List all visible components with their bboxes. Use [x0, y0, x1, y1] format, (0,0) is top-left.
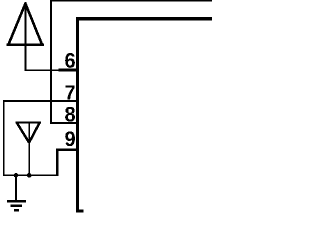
ground bar 2	[10, 205, 22, 207]
antenna E2 triangle right side	[29, 123, 39, 143]
antenna E1 base bar	[7, 44, 45, 46]
antenna E1 (top) mast	[24, 2, 26, 70]
wire ground bus (bottom horizontal)	[3, 175, 59, 177]
IC U1 bottom edge stub (thick, clipped)	[76, 209, 84, 212]
wire pin6 thin (antenna to stub)	[24, 69, 58, 71]
wire top edge (net to pin 8, runs off-screen right)	[50, 0, 212, 2]
wire pin8 (IC to long vertical)	[50, 122, 76, 124]
ground GND stem	[15, 176, 17, 201]
pin number 6	[65, 53, 75, 68]
ground bar 1	[7, 200, 26, 202]
wire pin7 (IC to left corner)	[3, 100, 76, 102]
pin number 8	[65, 107, 75, 122]
antenna E2 mast	[28, 123, 30, 175]
pin 6 stub (thick)	[59, 69, 77, 72]
wire pin9 riser (down to ground wire)	[56, 149, 59, 176]
wire left vertical (pin7 corner down to ground wire)	[3, 100, 5, 176]
antenna E2 (bottom, inverted) top bar	[15, 122, 41, 124]
pin number 9	[65, 131, 75, 146]
antenna E1 triangle left side	[9, 4, 26, 45]
antenna E1 triangle right side	[25, 4, 41, 45]
pin number 7	[65, 85, 74, 99]
pin 9 stub (thick)	[56, 149, 76, 152]
antenna E2 triangle left side	[17, 123, 29, 143]
IC U1 top edge (thick)	[76, 17, 212, 20]
IC U1 left edge (thick)	[76, 17, 79, 212]
junction dot (ground drop)	[14, 173, 19, 178]
junction dot (antenna mast)	[27, 173, 32, 178]
ground bar 3	[14, 209, 19, 211]
wire long vertical (x=50.8, top edge down to pin 8 wire)	[50, 0, 52, 124]
